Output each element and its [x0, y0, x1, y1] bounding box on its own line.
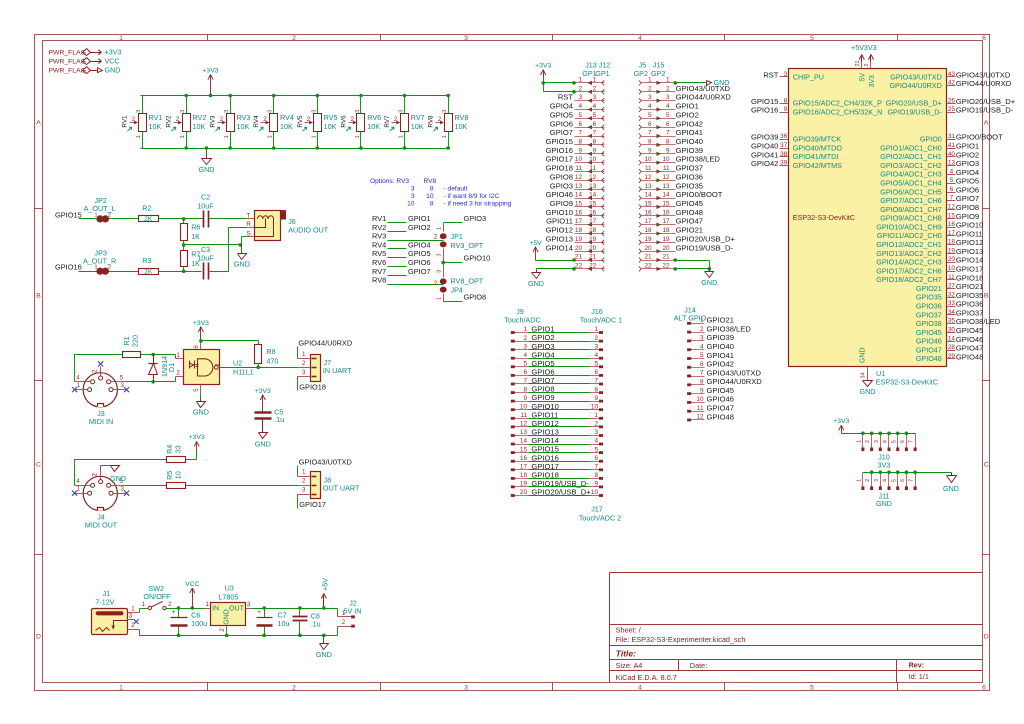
svg-text:GPIO35: GPIO35 [676, 181, 703, 190]
svg-text:+5V: +5V [529, 240, 542, 247]
wire +3V3 to GP1 pins 1-2 [544, 82, 575, 84]
svg-text:4: 4 [666, 103, 670, 110]
svg-text:Id: 1/1: Id: 1/1 [909, 672, 929, 681]
power +3V3 (U2) [200, 327, 202, 341]
svg-text:GPIO45: GPIO45 [676, 199, 703, 208]
svg-text:2: 2 [865, 479, 871, 482]
wire R1 to U2 pin1 [141, 354, 176, 356]
svg-text:GP1: GP1 [595, 69, 609, 78]
junction VCC node [191, 606, 195, 610]
svg-text:2: 2 [438, 116, 442, 123]
junction R8 output [256, 366, 260, 370]
svg-text:RV8: RV8 [424, 178, 437, 185]
svg-text:7: 7 [648, 130, 652, 137]
resistor R8 470 [255, 345, 262, 364]
svg-text:9: 9 [594, 481, 598, 488]
svg-text:3: 3 [411, 193, 415, 200]
connector J6 AUDIO OUT [255, 211, 281, 241]
svg-text:3: 3 [666, 94, 670, 101]
svg-text:GND: GND [714, 78, 730, 87]
svg-text:10: 10 [644, 156, 652, 163]
svg-text:GPIO4: GPIO4 [956, 168, 979, 177]
junction GP1 pin21 [572, 258, 576, 262]
svg-text:3: 3 [437, 270, 443, 273]
svg-text:15: 15 [662, 201, 670, 208]
svg-text:1: 1 [648, 77, 652, 84]
svg-text:14: 14 [644, 192, 652, 199]
svg-text:GPIO2: GPIO2 [676, 110, 699, 119]
connector J10 3V3 [862, 434, 864, 448]
svg-text:10u: 10u [278, 619, 290, 628]
svg-text:GPIO42: GPIO42 [676, 119, 703, 128]
power +5V (GP1) [535, 247, 537, 261]
svg-text:9: 9 [593, 147, 597, 154]
svg-text:GPIO46: GPIO46 [707, 395, 734, 404]
svg-text:GPIO37: GPIO37 [916, 310, 942, 319]
svg-text:5: 5 [891, 479, 897, 482]
svg-text:19: 19 [662, 236, 670, 243]
svg-text:3: 3 [700, 335, 704, 342]
connector J7 IN UART [311, 355, 321, 382]
capacitor C8 .1u [299, 609, 301, 617]
svg-text:3: 3 [648, 94, 652, 101]
svg-text:4: 4 [593, 103, 597, 110]
resistor R2 2K [139, 216, 159, 222]
svg-text:13: 13 [520, 429, 528, 436]
wire ground rail [140, 635, 338, 637]
wire R4 to +3V3 [186, 459, 197, 461]
svg-text:+3V3: +3V3 [189, 434, 205, 441]
pin U1 3V3 (top) [870, 62, 872, 69]
ground GND (GP2) [709, 269, 711, 272]
svg-text:7: 7 [594, 378, 598, 385]
svg-text:8: 8 [578, 139, 582, 146]
svg-text:1: 1 [142, 601, 146, 608]
svg-text:10: 10 [696, 396, 704, 403]
svg-text:1: 1 [593, 77, 597, 84]
svg-text:13: 13 [575, 183, 583, 190]
svg-text:VCC: VCC [185, 581, 199, 588]
junction C8 bottom [298, 634, 302, 638]
svg-text:GPIO9: GPIO9 [550, 199, 573, 208]
svg-text:C2: C2 [201, 193, 210, 202]
junction GP2 pin22 corner [708, 267, 712, 271]
svg-text:+3V3: +3V3 [833, 418, 849, 425]
svg-text:GPIO20/USB_D+: GPIO20/USB_D+ [531, 488, 591, 497]
svg-text:21: 21 [662, 254, 670, 261]
svg-text:17: 17 [644, 218, 652, 225]
connector J1 7-12V [92, 609, 128, 635]
svg-text:B: B [36, 292, 41, 299]
svg-text:6: 6 [900, 440, 906, 443]
svg-text:10K: 10K [455, 122, 468, 131]
junction U2 pin6 [199, 339, 203, 343]
svg-text:5: 5 [666, 112, 670, 119]
svg-text:10: 10 [520, 403, 528, 410]
svg-text:9: 9 [594, 395, 598, 402]
svg-text:13: 13 [662, 183, 670, 190]
svg-text:+3V3: +3V3 [255, 388, 271, 395]
svg-text:11: 11 [575, 165, 582, 172]
resistor R4 33 [167, 457, 186, 463]
svg-text:4: 4 [594, 352, 598, 359]
svg-text:5: 5 [648, 112, 652, 119]
svg-text:J5: J5 [639, 60, 647, 69]
svg-text:5V IN: 5V IN [344, 607, 362, 616]
svg-text:GPIO48: GPIO48 [676, 208, 703, 217]
svg-text:IN UART: IN UART [323, 366, 352, 375]
svg-text:GPIO12: GPIO12 [546, 226, 573, 235]
svg-text:3V3: 3V3 [869, 75, 876, 88]
wire +3V3 to J10 [842, 433, 916, 435]
svg-text:2: 2 [523, 335, 527, 342]
svg-text:H11L1: H11L1 [233, 367, 254, 376]
junction GP2 pin1 [673, 81, 677, 85]
svg-text:7: 7 [950, 195, 954, 202]
svg-text:GND: GND [316, 650, 332, 659]
svg-text:18: 18 [520, 472, 528, 479]
svg-text:U2: U2 [233, 359, 242, 368]
svg-text:2: 2 [648, 85, 652, 92]
svg-text:GPIO21: GPIO21 [956, 282, 983, 291]
svg-text:GND: GND [234, 259, 250, 268]
svg-text:GPIO5: GPIO5 [956, 177, 979, 186]
svg-text:1: 1 [180, 135, 186, 138]
no-connect J3 pin1 [72, 387, 77, 392]
svg-text:8: 8 [648, 139, 652, 146]
wire J9 to J16/J17 rows [529, 332, 590, 334]
svg-text:15: 15 [520, 446, 528, 453]
svg-text:GPIO38/LED: GPIO38/LED [707, 324, 752, 333]
svg-text:- default: - default [444, 186, 468, 193]
svg-text:10: 10 [591, 489, 599, 496]
svg-text:22: 22 [589, 263, 597, 270]
svg-text:ON/OFF: ON/OFF [143, 592, 171, 601]
diode D1 1N914 [153, 355, 155, 364]
svg-text:GPIO4/ADC1_CH3: GPIO4/ADC1_CH3 [880, 170, 942, 179]
svg-text:GPIO5: GPIO5 [550, 110, 573, 119]
svg-text:GP2: GP2 [634, 69, 648, 78]
svg-text:19: 19 [589, 236, 597, 243]
svg-text:CHIP_PU: CHIP_PU [793, 72, 824, 81]
svg-text:17: 17 [589, 218, 597, 225]
svg-text:3: 3 [437, 254, 443, 257]
svg-text:26: 26 [948, 97, 956, 104]
svg-text:D: D [36, 633, 41, 640]
connector J3 MIDI IN [83, 373, 117, 407]
svg-text:OUT: OUT [229, 605, 245, 612]
svg-text:GPIO8: GPIO8 [464, 293, 487, 302]
svg-text:2: 2 [263, 116, 267, 123]
svg-text:GPIO5: GPIO5 [408, 249, 431, 258]
junction GP2 pin22 [673, 267, 677, 271]
svg-text:5: 5 [810, 35, 814, 42]
svg-text:2: 2 [307, 116, 311, 123]
svg-text:GPIO3/ADC1_CH2: GPIO3/ADC1_CH2 [880, 161, 942, 170]
svg-text:1K: 1K [191, 259, 200, 268]
svg-text:41: 41 [948, 142, 956, 149]
svg-text:RV6: RV6 [372, 258, 386, 267]
svg-text:2: 2 [666, 85, 670, 92]
svg-text:A: A [36, 119, 41, 126]
junction GP1 +3V3 corner [541, 81, 545, 85]
svg-text:7: 7 [909, 440, 915, 443]
svg-text:RST: RST [763, 70, 779, 79]
no-connect J1 pin3 [134, 619, 139, 624]
svg-text:R7: R7 [191, 250, 200, 259]
svg-text:5V: 5V [860, 73, 867, 82]
svg-text:.1u: .1u [274, 415, 284, 424]
wire J4 pin5 to R5 [127, 485, 167, 487]
svg-text:GPIO15: GPIO15 [55, 210, 82, 219]
svg-text:7-12V: 7-12V [95, 598, 114, 607]
svg-text:GPIO0/BOOT: GPIO0/BOOT [956, 133, 1003, 142]
svg-text:RV8: RV8 [428, 115, 435, 128]
svg-text:GPIO39: GPIO39 [676, 146, 703, 155]
power VCC [192, 589, 194, 609]
wire U2 out to J7 pin2 [220, 367, 298, 369]
svg-text:3: 3 [411, 186, 415, 193]
junction D1 bottom [151, 380, 155, 384]
svg-text:GPIO9/ADC1_CH8: GPIO9/ADC1_CH8 [880, 214, 942, 223]
svg-text:RV8_OPT: RV8_OPT [451, 277, 484, 286]
svg-text:1: 1 [224, 135, 230, 138]
svg-text:- if need 3 for strapping: - if need 3 for strapping [444, 201, 512, 208]
connector J14 ALT GPIO pins [688, 323, 705, 325]
svg-text:GPIO35: GPIO35 [916, 293, 942, 302]
svg-text:RV3: RV3 [210, 115, 217, 128]
svg-text:13: 13 [948, 160, 956, 167]
svg-text:GPIO20/USB_D+: GPIO20/USB_D+ [676, 234, 736, 243]
svg-text:1: 1 [176, 352, 180, 359]
svg-text:GPIO48: GPIO48 [707, 412, 734, 421]
svg-text:1: 1 [119, 684, 123, 691]
svg-text:JP4: JP4 [451, 285, 463, 294]
potentiometer RV5 10K [317, 96, 319, 114]
svg-text:GPIO0/BOOT: GPIO0/BOOT [676, 190, 723, 199]
junction RV4 rails [272, 94, 276, 98]
svg-text:GPIO6: GPIO6 [956, 185, 979, 194]
svg-text:Options: RV3: Options: RV3 [370, 178, 409, 185]
svg-text:19: 19 [948, 247, 956, 254]
svg-text:R2: R2 [142, 204, 151, 213]
svg-text:+3V3: +3V3 [202, 67, 218, 74]
svg-text:6: 6 [193, 345, 200, 349]
junction mid rail right [239, 243, 243, 247]
no-connect J3 pin2 [98, 361, 103, 366]
svg-text:GPIO45: GPIO45 [707, 386, 734, 395]
svg-text:5: 5 [193, 388, 200, 392]
svg-text:RV5: RV5 [324, 113, 338, 122]
svg-text:GPIO40/MTDO: GPIO40/MTDO [793, 143, 843, 152]
svg-text:GPIO20/USB_D+: GPIO20/USB_D+ [956, 97, 1016, 106]
svg-text:2: 2 [700, 326, 704, 333]
svg-text:GPIO39/MTCK: GPIO39/MTCK [793, 135, 842, 144]
junction D1 top [151, 353, 155, 357]
svg-text:10: 10 [174, 471, 183, 479]
svg-text:100u: 100u [191, 619, 207, 628]
svg-text:GPIO42: GPIO42 [751, 159, 778, 168]
svg-text:Date:: Date: [690, 661, 707, 670]
svg-text:2: 2 [351, 116, 355, 123]
svg-text:RV4: RV4 [280, 113, 294, 122]
svg-text:U3: U3 [225, 584, 234, 593]
jumper JP2 A_OUT_L [97, 216, 103, 222]
svg-text:RV7: RV7 [372, 267, 386, 276]
svg-text:GPIO18: GPIO18 [546, 164, 573, 173]
no-connect J4 pin1 [72, 491, 77, 496]
svg-text:S: S [246, 230, 250, 237]
svg-text:GPIO38: GPIO38 [916, 319, 942, 328]
junction R3/R7 node [182, 269, 186, 273]
svg-text:GPIO16: GPIO16 [751, 106, 778, 115]
junction RV3 rails [228, 94, 232, 98]
svg-text:17: 17 [662, 218, 670, 225]
svg-text:12: 12 [644, 174, 652, 181]
junction GP1 pin1 [572, 81, 576, 85]
svg-text:GPIO8: GPIO8 [956, 203, 979, 212]
svg-text:3: 3 [442, 110, 448, 113]
svg-text:GPIO4: GPIO4 [408, 240, 431, 249]
svg-text:3: 3 [594, 429, 598, 436]
junction C6 top [177, 606, 181, 610]
svg-text:12: 12 [696, 414, 704, 421]
svg-text:GPIO44/U0RXD: GPIO44/U0RXD [676, 93, 732, 102]
svg-text:16: 16 [575, 209, 583, 216]
svg-text:20: 20 [644, 245, 652, 252]
svg-text:18: 18 [644, 227, 652, 234]
svg-text:MIDI OUT: MIDI OUT [85, 520, 118, 529]
svg-text:RV5: RV5 [297, 115, 304, 128]
svg-text:1: 1 [700, 317, 704, 324]
svg-text:2: 2 [302, 360, 306, 367]
svg-text:31: 31 [948, 133, 956, 140]
svg-text:470: 470 [266, 356, 278, 365]
svg-text:Sheet: /: Sheet: / [616, 626, 642, 635]
wire riser to J6 pin R [229, 227, 247, 229]
ground GND (U2) [197, 402, 206, 408]
svg-text:R3: R3 [142, 256, 151, 265]
svg-text:1: 1 [594, 326, 598, 333]
svg-text:+5V: +5V [321, 578, 330, 591]
svg-text:42: 42 [948, 80, 956, 87]
svg-text:20: 20 [575, 245, 583, 252]
svg-text:RST: RST [558, 93, 574, 102]
svg-text:9: 9 [784, 106, 788, 113]
svg-text:RV8: RV8 [455, 113, 469, 122]
svg-text:GPIO13: GPIO13 [546, 234, 573, 243]
svg-text:RV1: RV1 [149, 113, 163, 122]
svg-text:KiCad E.D.A. 8.0.7: KiCad E.D.A. 8.0.7 [616, 673, 677, 682]
connector J9 Touch/ADC pins [512, 332, 529, 334]
wire J6 pin S drop [242, 236, 247, 238]
svg-text:GPIO41: GPIO41 [707, 351, 734, 360]
junction C7 bottom [262, 634, 266, 638]
svg-text:10: 10 [662, 156, 670, 163]
svg-text:GPIO17/ADC2_CH6: GPIO17/ADC2_CH6 [876, 266, 942, 275]
ground GND (U1) [863, 381, 873, 387]
svg-text:1: 1 [131, 605, 135, 612]
svg-text:2: 2 [394, 116, 398, 123]
svg-text:3: 3 [120, 486, 124, 493]
svg-text:3: 3 [311, 110, 317, 113]
svg-text:GND: GND [105, 66, 121, 75]
svg-text:GPIO14: GPIO14 [956, 256, 983, 265]
svg-text:20: 20 [520, 489, 528, 496]
svg-text:J1: J1 [103, 589, 111, 598]
wire GP2 pin1 to GND flag [676, 82, 707, 84]
junction RV5 rails [316, 94, 320, 98]
svg-text:J15: J15 [653, 60, 665, 69]
svg-text:2: 2 [865, 440, 871, 443]
svg-text:GND: GND [943, 484, 959, 493]
svg-text:8: 8 [430, 186, 434, 193]
jumper JP1 RV3_OPT [443, 223, 445, 232]
svg-text:38: 38 [780, 151, 788, 158]
svg-text:16: 16 [589, 209, 597, 216]
svg-text:4: 4 [950, 168, 954, 175]
svg-text:3: 3 [593, 94, 597, 101]
svg-text:14: 14 [948, 335, 956, 342]
svg-text:GPIO41/MTDI: GPIO41/MTDI [793, 152, 839, 161]
wire J11 to GND [863, 472, 952, 474]
svg-text:RV3: RV3 [372, 232, 386, 241]
connector J2 5V IN [338, 616, 352, 618]
svg-text:A: A [984, 119, 989, 126]
svg-text:1K: 1K [191, 232, 200, 241]
svg-text:9: 9 [700, 387, 704, 394]
svg-text:GPIO10: GPIO10 [546, 208, 573, 217]
svg-text:GND: GND [110, 474, 126, 483]
svg-text:GPIO7: GPIO7 [408, 267, 431, 276]
svg-text:2: 2 [220, 116, 224, 123]
svg-text:C3: C3 [201, 245, 210, 254]
svg-text:GPIO2/ADC1_CH1: GPIO2/ADC1_CH1 [880, 152, 942, 161]
svg-text:GPIO46: GPIO46 [916, 337, 942, 346]
svg-text:10uF: 10uF [197, 201, 214, 210]
junction +5V node [322, 606, 326, 610]
svg-text:11: 11 [590, 165, 597, 172]
svg-text:3: 3 [180, 110, 186, 113]
svg-text:GPIO38/LED: GPIO38/LED [676, 155, 721, 164]
svg-text:4: 4 [523, 352, 527, 359]
svg-text:4: 4 [76, 374, 80, 381]
svg-text:5: 5 [523, 361, 527, 368]
svg-text:2: 2 [92, 369, 99, 373]
no-connect J4 pin3 [124, 491, 129, 496]
svg-text:36: 36 [780, 133, 788, 140]
svg-text:Touch/ADC 1: Touch/ADC 1 [580, 315, 622, 324]
svg-text:1: 1 [437, 227, 443, 230]
svg-text:GND: GND [528, 279, 544, 288]
svg-text:2: 2 [108, 212, 111, 218]
svg-text:1: 1 [857, 479, 863, 482]
svg-text:1: 1 [311, 135, 317, 138]
svg-text:220: 220 [131, 335, 140, 347]
svg-text:2: 2 [593, 85, 597, 92]
ground GND (GP1) [536, 269, 538, 273]
svg-text:9: 9 [578, 147, 582, 154]
junction RV6 rails [359, 94, 363, 98]
svg-text:19: 19 [644, 236, 652, 243]
svg-text:GPIO38/LED: GPIO38/LED [956, 317, 1001, 326]
junction C7 top [262, 606, 266, 610]
svg-text:7: 7 [909, 479, 915, 482]
svg-text:4: 4 [215, 363, 222, 367]
svg-text:5: 5 [810, 684, 814, 691]
wire J4 pin4 to R4 [75, 460, 167, 486]
junction +3V3 rail [209, 94, 213, 98]
